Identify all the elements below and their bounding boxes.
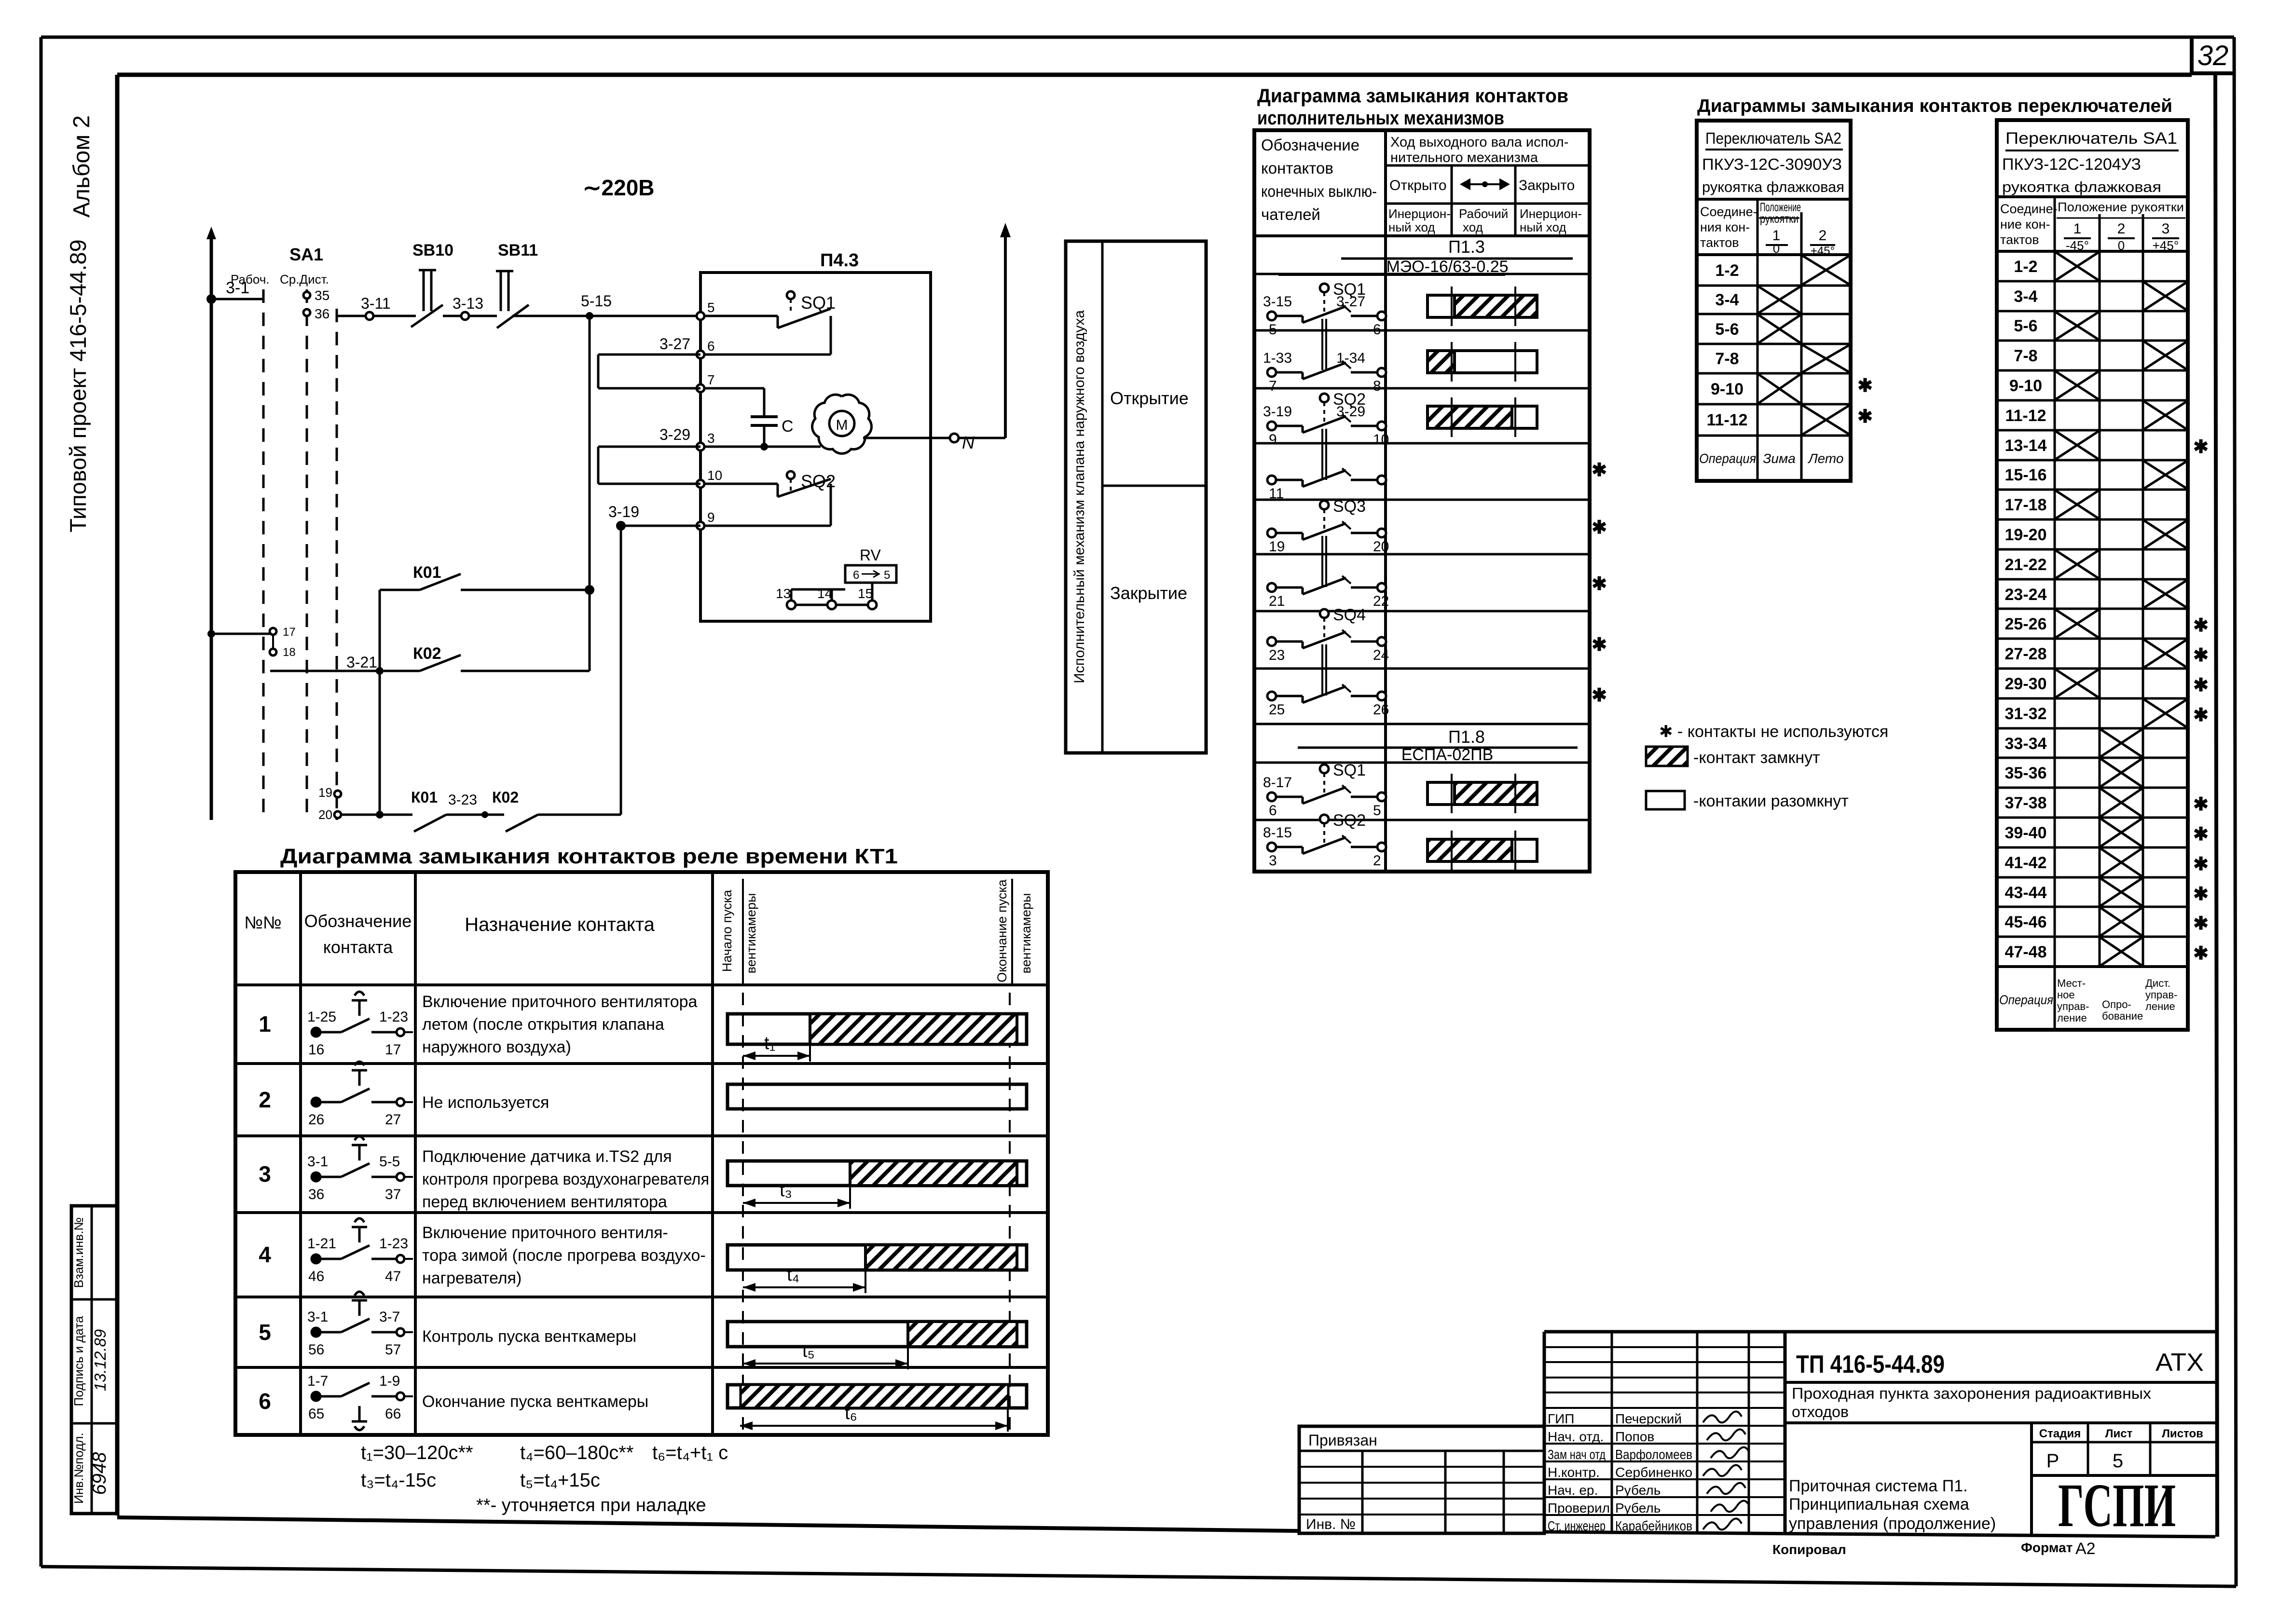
svg-text:SQ1: SQ1 [1333,761,1366,779]
svg-text:Листов: Листов [2162,1427,2203,1440]
svg-text:13: 13 [776,586,791,601]
svg-text:✱: ✱ [2193,615,2209,636]
svg-text:3-19: 3-19 [608,503,639,520]
svg-text:22: 22 [1373,593,1389,609]
svg-text:21: 21 [1269,593,1285,609]
svg-text:24: 24 [1373,647,1389,663]
svg-text:32: 32 [2197,40,2229,71]
svg-text:47-48: 47-48 [2005,943,2047,961]
svg-text:Р: Р [2046,1450,2059,1472]
svg-text:Н.контр.: Н.контр. [1548,1465,1600,1480]
svg-text:t₅: t₅ [802,1341,815,1361]
svg-text:П1.8: П1.8 [1448,727,1485,747]
svg-text:26: 26 [308,1112,324,1128]
svg-text:4: 4 [259,1242,271,1267]
svg-text:65: 65 [308,1406,324,1422]
svg-text:37: 37 [385,1187,401,1202]
svg-text:56: 56 [308,1342,324,1358]
svg-text:ное: ное [2057,989,2075,1001]
svg-text:-контакт замкнут: -контакт замкнут [1693,749,1820,767]
svg-text:3-29: 3-29 [1336,404,1365,420]
svg-text:тактов: тактов [1700,235,1739,250]
svg-text:Обозначение: Обозначение [1261,136,1359,154]
svg-text:Не используется: Не используется [422,1093,549,1112]
svg-text:Формат: Формат [2021,1540,2073,1555]
svg-text:1-25: 1-25 [307,1009,336,1025]
svg-text:АТХ: АТХ [2155,1349,2204,1377]
svg-text:Подпись и дата: Подпись и дата [71,1316,86,1406]
svg-text:Мест-: Мест- [2057,977,2086,989]
svg-text:27: 27 [385,1112,401,1128]
svg-text:66: 66 [385,1406,401,1422]
svg-text:Проходная пункта захоронения: Проходная пункта захоронения радиоактивн… [1792,1385,2151,1402]
svg-text:6: 6 [853,569,859,582]
svg-text:19-20: 19-20 [2005,526,2047,544]
svg-text:Закрыто: Закрыто [1519,177,1575,193]
svg-text:3-4: 3-4 [2014,287,2037,306]
svg-text:3-4: 3-4 [1715,291,1739,309]
svg-text:Подключение датчика и.TS2 для: Подключение датчика и.TS2 для [422,1147,672,1166]
svg-text:6: 6 [259,1389,271,1414]
svg-text:SQ3: SQ3 [1333,497,1366,516]
svg-text:5: 5 [1373,803,1381,819]
svg-text:3: 3 [259,1161,271,1187]
svg-text:ход: ход [1463,220,1483,234]
svg-text:✱: ✱ [2193,705,2209,725]
svg-text:ния кон-: ния кон- [1700,220,1750,234]
svg-text:33-34: 33-34 [2005,735,2047,753]
svg-text:3-1: 3-1 [307,1309,328,1325]
svg-text:8-17: 8-17 [1263,775,1292,791]
svg-text:6: 6 [1373,322,1381,338]
svg-text:t₃=t₄-15с: t₃=t₄-15с [361,1470,436,1491]
svg-text:ние кон-: ние кон- [2000,217,2050,232]
svg-text:К01: К01 [411,789,438,806]
svg-text:3-7: 3-7 [379,1309,400,1325]
svg-text:1-7: 1-7 [307,1373,328,1389]
svg-text:Исполнительный механизм клапан: Исполнительный механизм клапана наружног… [1071,310,1087,683]
svg-text:3-23: 3-23 [448,792,477,808]
svg-text:вентикамеры: вентикамеры [744,893,758,974]
svg-text:5-6: 5-6 [2014,317,2037,335]
svg-text:рукоятки: рукоятки [1760,212,1798,226]
svg-text:1: 1 [2073,221,2082,237]
svg-text:Лист: Лист [2105,1427,2133,1440]
svg-text:6: 6 [1269,803,1277,819]
svg-text:36: 36 [308,1187,324,1202]
svg-text:SQ4: SQ4 [1333,606,1366,624]
svg-text:Диаграмма замыкания контактов: Диаграмма замыкания контактов [1257,85,1568,107]
svg-text:3: 3 [1269,853,1277,869]
svg-text:Обозначение: Обозначение [304,911,412,931]
svg-text:✱: ✱ [2193,645,2209,666]
svg-text:Контроль пуска венткамеры: Контроль пуска венткамеры [422,1327,636,1346]
svg-text:ление: ление [2145,1000,2175,1012]
svg-text:2: 2 [2117,221,2126,237]
svg-text:Сербиненко: Сербиненко [1615,1465,1692,1480]
svg-text:П1.3: П1.3 [1448,237,1485,257]
svg-text:✱: ✱ [2193,437,2209,457]
svg-text:39-40: 39-40 [2005,824,2047,842]
svg-text:**- уточняется при наладке: **- уточняется при наладке [476,1495,706,1515]
svg-text:5: 5 [2113,1450,2123,1472]
svg-text:3-27: 3-27 [659,335,690,353]
svg-text:ГСПИ: ГСПИ [2058,1471,2176,1540]
svg-text:23-24: 23-24 [2005,586,2047,604]
svg-text:Включение приточного вентиля: Включение приточного вентиля- [422,1224,668,1242]
svg-text:9: 9 [1269,432,1277,448]
svg-text:ЕСПА-02ПВ: ЕСПА-02ПВ [1401,746,1494,764]
svg-text:✱: ✱ [1592,574,1607,594]
svg-text:21-22: 21-22 [2005,556,2047,574]
svg-text:Положение рукоятки: Положение рукоятки [2058,200,2184,214]
svg-text:2: 2 [1819,228,1827,244]
svg-text:Копировал: Копировал [1772,1542,1846,1557]
svg-text:тора зимой (после прогрева в: тора зимой (после прогрева воздухо- [422,1246,706,1265]
svg-text:11: 11 [1269,486,1284,502]
svg-text:46: 46 [308,1269,324,1284]
svg-text:1-2: 1-2 [1715,261,1739,280]
svg-text:27-28: 27-28 [2005,645,2047,663]
svg-text:5: 5 [707,300,715,315]
svg-text:1-23: 1-23 [379,1236,408,1252]
svg-text:управления (продолжение): управления (продолжение) [1789,1515,1996,1533]
svg-text:ный ход: ный ход [1520,220,1566,234]
svg-text:t₆: t₆ [845,1403,857,1423]
svg-text:7: 7 [707,372,715,387]
svg-text:9-10: 9-10 [1711,380,1744,398]
svg-text:SQ2: SQ2 [1333,811,1366,830]
svg-text:Операция: Операция [1699,451,1756,466]
svg-text:исполнительных механизмов: исполнительных механизмов [1257,108,1504,129]
svg-text:наружного воздуха): наружного воздуха) [422,1038,571,1056]
svg-text:нительного механизма: нительного механизма [1390,150,1538,165]
svg-text:t₆=t₄+t₁ с: t₆=t₄+t₁ с [652,1442,728,1463]
svg-text:К02: К02 [492,789,519,806]
svg-text:нагревателя): нагревателя) [422,1269,522,1287]
svg-text:57: 57 [385,1342,401,1358]
svg-text:37-38: 37-38 [2005,794,2047,812]
svg-text:RV: RV [860,546,881,564]
svg-text:Инерцион-: Инерцион- [1520,206,1582,221]
svg-text:✱: ✱ [1592,635,1607,655]
svg-text:1-2: 1-2 [2014,258,2037,276]
svg-text:8: 8 [1373,378,1381,394]
svg-text:11-12: 11-12 [1706,411,1747,429]
svg-text:Альбом 2: Альбом 2 [69,115,95,218]
svg-text:3: 3 [707,431,715,446]
svg-text:25: 25 [1269,702,1285,718]
svg-text:29-30: 29-30 [2005,675,2047,693]
svg-text:17: 17 [385,1042,401,1058]
svg-text:конечных выклю-: конечных выклю- [1261,182,1377,200]
svg-text:6: 6 [707,339,715,354]
svg-text:1-21: 1-21 [307,1236,336,1252]
svg-text:Открытие: Открытие [1110,388,1189,408]
svg-text:Рабочий: Рабочий [1459,206,1508,221]
svg-text:✱: ✱ [2193,943,2209,964]
svg-text:5: 5 [884,569,890,582]
svg-text:10: 10 [707,468,722,483]
svg-text:ПКУЗ-12С-1204УЗ: ПКУЗ-12С-1204УЗ [2002,155,2141,174]
svg-text:летом (после открытия клапана: летом (после открытия клапана [422,1015,664,1034]
svg-text:Переключатель SA2: Переключатель SA2 [1705,129,1841,147]
svg-text:ПКУЗ-12С-3090УЗ: ПКУЗ-12С-3090УЗ [1702,155,1842,173]
svg-text:Операция: Операция [1999,993,2053,1007]
svg-text:1-9: 1-9 [379,1373,400,1389]
svg-text:11-12: 11-12 [2005,407,2046,425]
svg-text:Инерцион-: Инерцион- [1388,206,1451,221]
svg-text:18: 18 [283,646,296,659]
svg-text:20: 20 [1373,539,1389,555]
svg-text:9: 9 [707,510,715,525]
svg-text:Лето: Лето [1807,451,1843,466]
svg-text:3: 3 [2162,221,2170,237]
svg-text:43-44: 43-44 [2005,884,2047,902]
svg-text:13.12.89: 13.12.89 [91,1329,109,1391]
svg-text:1: 1 [259,1011,271,1037]
svg-text:3-21: 3-21 [346,654,377,671]
svg-text:19: 19 [1269,539,1285,555]
svg-text:15-16: 15-16 [2005,466,2047,484]
svg-text:∼220В: ∼220В [583,175,655,200]
svg-text:✱: ✱ [2193,824,2209,845]
svg-text:Печерский: Печерский [1615,1411,1682,1426]
svg-text:К02: К02 [413,644,441,663]
svg-text:3-29: 3-29 [659,426,690,443]
svg-text:15: 15 [858,586,873,601]
svg-text:Рабоч.: Рабоч. [231,272,270,287]
svg-text:N: N [962,433,975,452]
svg-text:М: М [836,417,848,433]
svg-text:16: 16 [308,1042,324,1058]
svg-text:Попов: Попов [1615,1429,1654,1444]
svg-text:17-18: 17-18 [2005,496,2047,514]
svg-text:П4.3: П4.3 [820,250,859,271]
svg-text:36: 36 [315,306,329,321]
svg-text:SB11: SB11 [498,241,538,259]
svg-text:✱: ✱ [2193,884,2209,904]
svg-text:К01: К01 [413,563,441,582]
svg-text:Принципиальная схема: Принципиальная схема [1789,1495,1969,1514]
svg-text:7-8: 7-8 [2014,347,2037,365]
svg-text:5: 5 [1269,322,1277,338]
svg-text:13-14: 13-14 [2005,437,2047,455]
svg-text:✱: ✱ [2193,854,2209,874]
svg-text:t₁=30–120с**: t₁=30–120с** [361,1442,473,1463]
svg-text:t₁: t₁ [764,1033,775,1053]
svg-text:Окончание пуска венткамеры: Окончание пуска венткамеры [422,1392,648,1411]
svg-text:-контакии разомкнут: -контакии разомкнут [1693,792,1849,810]
svg-text:рукоятка флажковая: рукоятка флажковая [1702,178,1844,195]
svg-text:Взам.инв.№: Взам.инв.№ [71,1217,86,1288]
svg-text:Включение приточного вентилято: Включение приточного вентилятора [422,993,698,1011]
svg-text:№№: №№ [244,913,281,932]
svg-text:Инв. №: Инв. № [1306,1516,1356,1532]
svg-text:✱: ✱ [1592,518,1607,538]
svg-text:19: 19 [318,785,332,800]
svg-text:✱: ✱ [1857,407,1873,427]
svg-text:Диаграммы замыкания контактов: Диаграммы замыкания контактов переключат… [1697,96,2172,116]
svg-text:✱: ✱ [1592,460,1607,480]
svg-text:1-33: 1-33 [1263,350,1292,366]
svg-text:5-15: 5-15 [581,292,612,310]
svg-text:тактов: тактов [2000,232,2039,247]
svg-text:отходов: отходов [1792,1403,1849,1420]
svg-text:45-46: 45-46 [2005,913,2047,931]
svg-text:Зима: Зима [1763,451,1796,466]
svg-text:перед включением вентилятора: перед включением вентилятора [422,1193,667,1211]
svg-text:SA1: SA1 [289,245,323,264]
svg-text:ный ход: ный ход [1388,220,1435,234]
svg-text:31-32: 31-32 [2005,705,2047,723]
svg-text:контакта: контакта [323,937,393,957]
svg-text:Зам нач отд: Зам нач отд [1548,1447,1606,1462]
svg-text:Типовой проект 416-5-44.89: Типовой проект 416-5-44.89 [65,239,91,532]
svg-text:5-5: 5-5 [379,1154,400,1170]
svg-text:контроля прогрева воздухонаг: контроля прогрева воздухонагревателя [422,1170,709,1188]
svg-text:Рубель: Рубель [1615,1483,1661,1498]
svg-text:✱: ✱ [2193,675,2209,696]
svg-text:1-23: 1-23 [379,1009,408,1025]
svg-text:Соедине-: Соедине- [2000,202,2058,216]
svg-text:Ср.Дист.: Ср.Дист. [280,272,329,287]
svg-text:25-26: 25-26 [2005,615,2047,633]
svg-text:Начало пуска: Начало пуска [720,889,734,972]
svg-text:Нач. ер.: Нач. ер. [1548,1483,1598,1498]
svg-text:17: 17 [283,626,296,639]
svg-text:Переключатель SA1: Переключатель SA1 [2005,129,2177,148]
svg-text:Приточная система П1.: Приточная система П1. [1789,1477,1968,1495]
svg-text:Инв.№подл.: Инв.№подл. [71,1433,86,1504]
svg-text:2: 2 [1373,853,1381,869]
svg-text:3-15: 3-15 [1263,294,1292,310]
svg-text:✱: ✱ [1592,685,1607,706]
svg-text:5-6: 5-6 [1715,320,1739,339]
svg-text:Привязан: Привязан [1308,1432,1377,1449]
svg-text:Нач. отд.: Нач. отд. [1548,1429,1604,1444]
svg-text:✱: ✱ [2193,794,2209,815]
svg-text:Открыто: Открыто [1389,177,1447,193]
svg-text:3-11: 3-11 [361,295,391,312]
svg-text:ТП 416-5-44.89: ТП 416-5-44.89 [1796,1351,1945,1378]
svg-text:Ход выходного вала испол-: Ход выходного вала испол- [1390,135,1568,150]
svg-text:3-13: 3-13 [453,295,483,312]
svg-text:бование: бование [2102,1010,2143,1022]
svg-text:Дист.: Дист. [2145,977,2170,989]
svg-text:Варфоломеев: Варфоломеев [1615,1447,1692,1462]
svg-text:23: 23 [1269,647,1285,663]
svg-text:рукоятка флажковая: рукоятка флажковая [2002,178,2161,195]
svg-text:управ-: управ- [2145,989,2177,1001]
svg-text:t₄=60–180с**: t₄=60–180с** [520,1442,633,1463]
svg-text:SB10: SB10 [412,241,453,259]
svg-text:41-42: 41-42 [2005,854,2047,872]
svg-text:7-8: 7-8 [1715,350,1739,368]
svg-text:47: 47 [385,1269,401,1284]
svg-text:чателей: чателей [1261,205,1320,223]
svg-text:ГИП: ГИП [1548,1411,1574,1426]
svg-text:✱ - контакты не используются: ✱ - контакты не используются [1659,723,1888,741]
svg-text:9-10: 9-10 [2009,377,2042,395]
svg-text:Соедине-: Соедине- [1700,205,1757,219]
svg-text:Опро-: Опро- [2102,998,2131,1010]
svg-text:C: C [782,417,794,436]
svg-text:ление: ление [2057,1012,2087,1024]
svg-text:Стадия: Стадия [2039,1427,2081,1440]
svg-text:Диаграмма замыкания контактов: Диаграмма замыкания контактов реле време… [280,845,898,868]
svg-text:3-1: 3-1 [307,1154,328,1170]
svg-text:6948: 6948 [89,1452,110,1495]
svg-text:3-19: 3-19 [1263,404,1292,420]
svg-text:t₄: t₄ [787,1265,799,1285]
svg-text:управ-: управ- [2057,1000,2089,1012]
svg-text:Рубель: Рубель [1615,1501,1661,1515]
svg-text:5: 5 [259,1320,271,1345]
svg-text:Назначение контакта: Назначение контакта [465,914,655,935]
svg-text:7: 7 [1269,378,1277,394]
svg-text:Закрытие: Закрытие [1110,583,1187,603]
svg-text:10: 10 [1373,432,1389,448]
svg-text:35: 35 [315,288,329,303]
svg-text:А2: А2 [2075,1540,2096,1558]
svg-text:✱: ✱ [1857,376,1873,396]
svg-text:3-27: 3-27 [1336,294,1365,310]
svg-text:20: 20 [318,807,332,822]
svg-text:8-15: 8-15 [1263,825,1292,841]
svg-text:Проверил: Проверил [1548,1501,1610,1515]
svg-text:t₅=t₄+15с: t₅=t₄+15с [520,1470,600,1491]
svg-text:t₃: t₃ [780,1180,792,1201]
svg-text:Окончание пуска: Окончание пуска [995,879,1009,982]
svg-text:вентикамеры: вентикамеры [1019,893,1033,974]
svg-text:✱: ✱ [2193,914,2209,934]
svg-text:2: 2 [259,1087,271,1112]
svg-text:26: 26 [1373,702,1389,718]
svg-text:контактов: контактов [1261,159,1333,177]
svg-text:35-36: 35-36 [2005,764,2047,782]
svg-text:1-34: 1-34 [1336,350,1365,366]
